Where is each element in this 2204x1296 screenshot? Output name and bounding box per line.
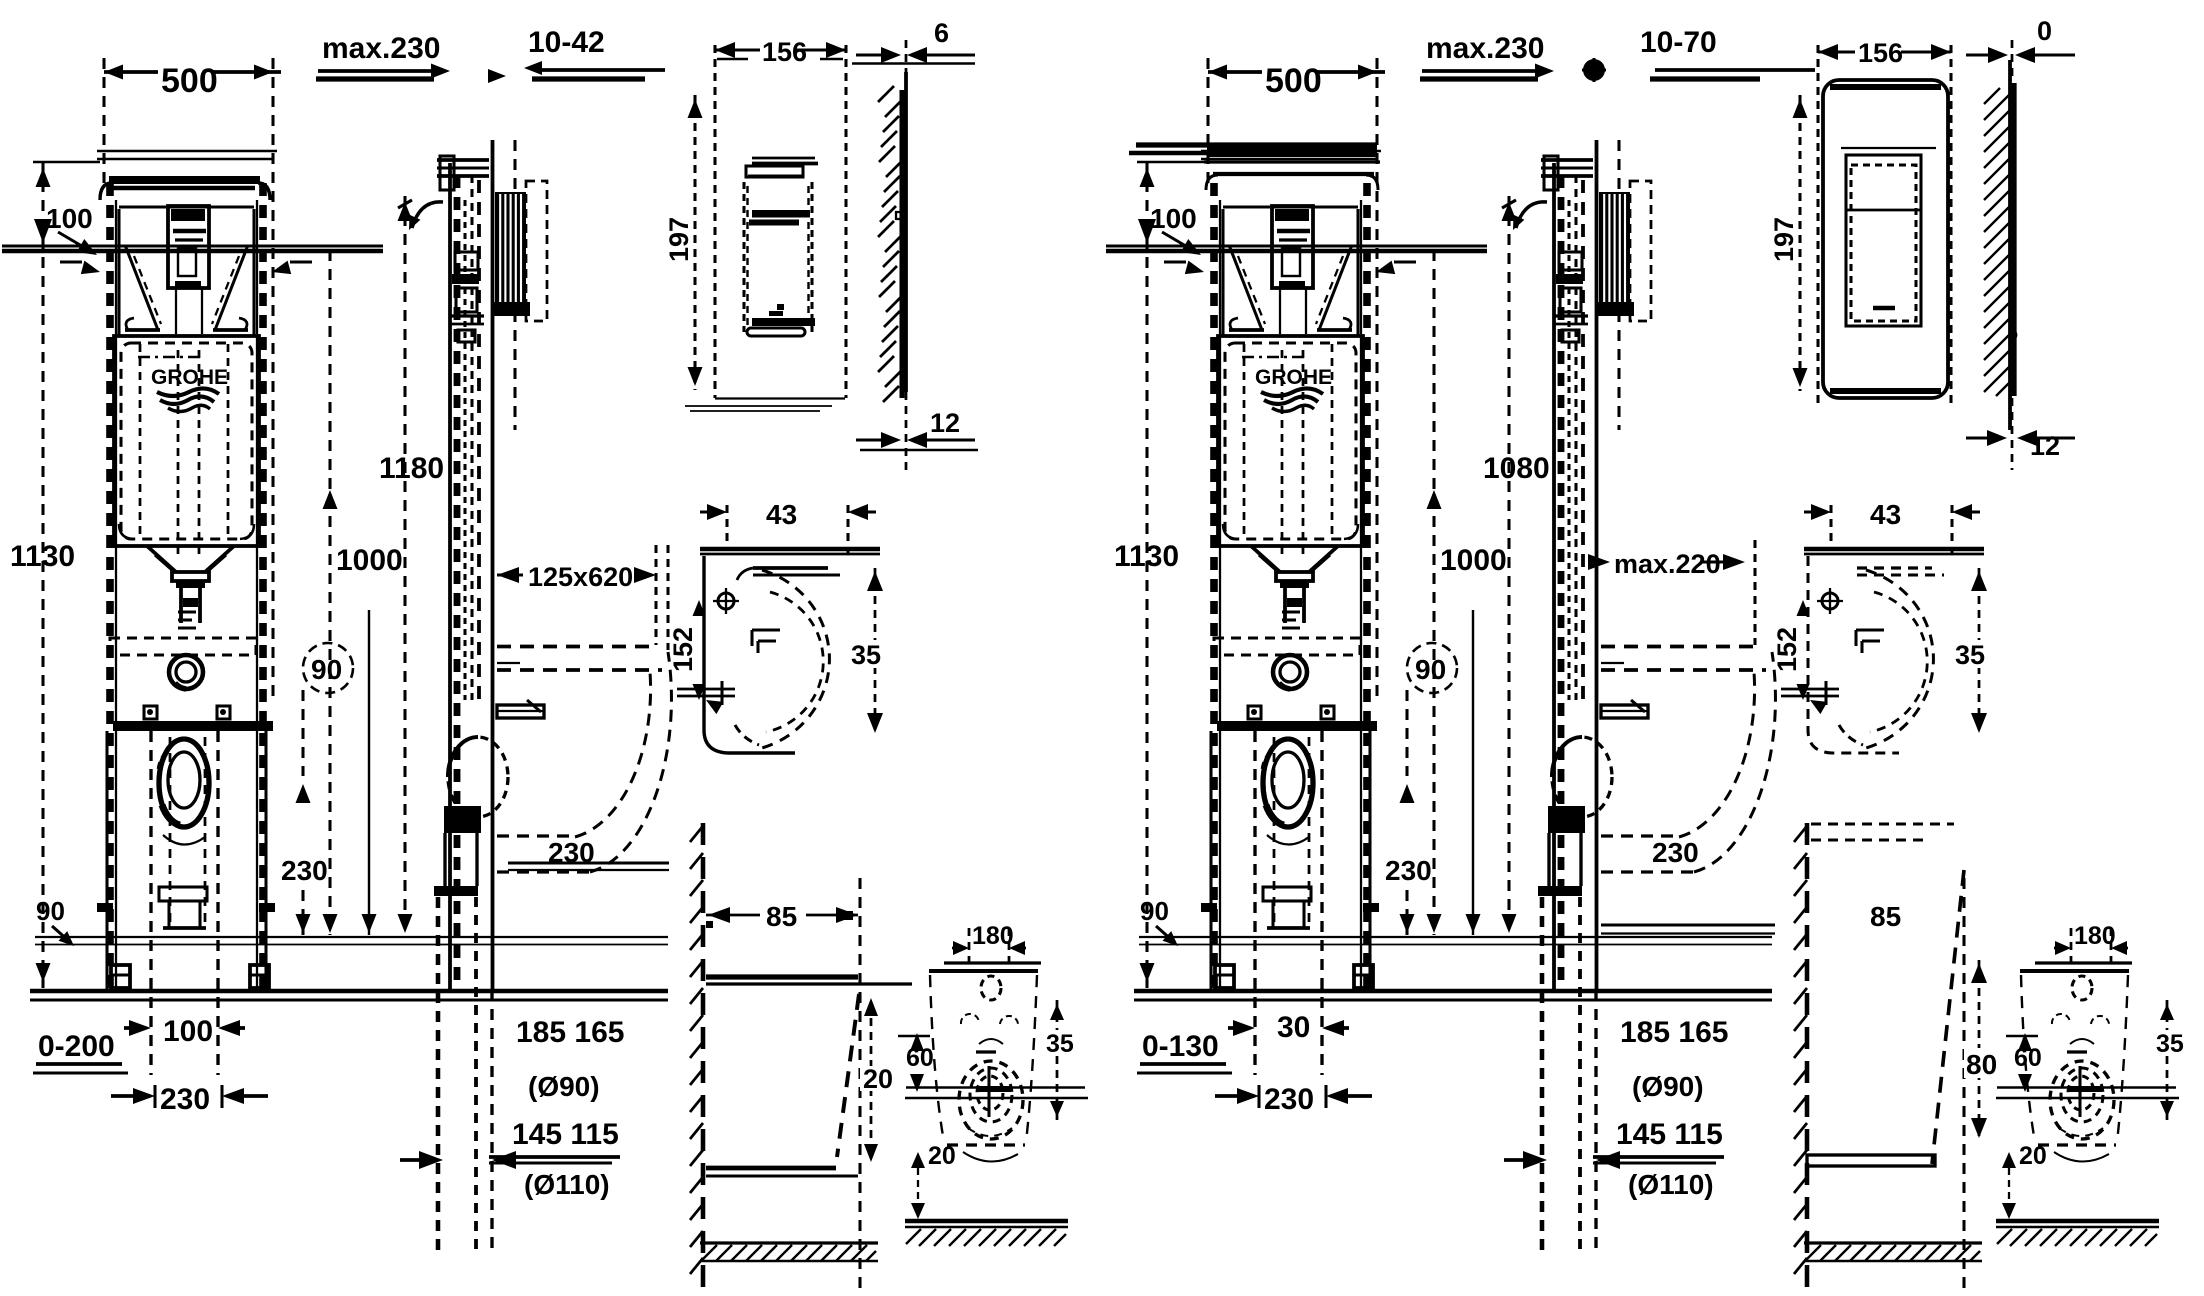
svg-text:0-200: 0-200 — [38, 1030, 115, 1063]
horizontal outlet pipe dashed L — [497, 647, 671, 873]
svg-text:35: 35 — [1046, 1030, 1074, 1058]
svg-text:197: 197 — [664, 217, 694, 262]
bowl front dim 20 L — [911, 1142, 956, 1219]
side view extent line 1000 L — [323, 250, 338, 935]
svg-text:6: 6 — [934, 18, 949, 48]
dim 35 right R — [1952, 568, 1987, 735]
dim 100 bottom L — [124, 1015, 245, 1048]
frame top plate L — [97, 151, 277, 200]
svg-text:145 115: 145 115 — [512, 1118, 619, 1151]
flush connection marks L — [752, 630, 780, 653]
frame side rails L — [110, 183, 263, 990]
svg-text:1000: 1000 — [1440, 544, 1507, 577]
dim 85 bowl side L — [706, 901, 858, 932]
GROHE logo R — [1255, 366, 1332, 412]
dim 152 rotated L — [668, 600, 706, 700]
flush connection marks R — [1856, 630, 1884, 653]
svg-text:90: 90 — [36, 896, 65, 926]
svg-text:180: 180 — [2074, 922, 2116, 950]
svg-text:180: 180 — [972, 922, 1014, 950]
dim 85 bowl side R — [1870, 901, 1901, 932]
flush plate dim 197 L — [664, 95, 703, 390]
dim 20 bowl side L — [860, 998, 894, 1162]
svg-text:30: 30 — [1277, 1011, 1310, 1044]
label 230 at pipe R — [1652, 837, 1699, 868]
outlet bend side view R — [1548, 737, 1612, 833]
svg-text:500: 500 — [1265, 62, 1322, 100]
svg-text:156: 156 — [762, 37, 807, 67]
extension dashed line L — [858, 878, 861, 1290]
label 1000 L — [336, 544, 403, 577]
bowl seat dashed ellipses R — [1839, 570, 1933, 748]
wall section hatch plate R — [1984, 40, 2016, 470]
svg-text:(Ø110): (Ø110) — [524, 1169, 610, 1200]
dim 35 right L — [848, 568, 883, 735]
svg-text:85: 85 — [766, 901, 797, 932]
svg-text:1130: 1130 — [1114, 540, 1179, 573]
left installation set — [0, 0, 1, 1]
side view supply valve L — [450, 252, 484, 342]
overall height dim 1130 R — [1114, 162, 1204, 988]
support bracket bar L — [113, 721, 273, 731]
svg-text:(Ø90): (Ø90) — [1632, 1071, 1704, 1102]
bowl front dim 60 L — [898, 1033, 934, 1092]
flush plate dashed extents L — [685, 45, 846, 411]
svg-text:20: 20 — [863, 1064, 893, 1094]
label 90 circled R — [1407, 643, 1457, 693]
frame feet L — [97, 731, 275, 990]
supply stub R — [1781, 681, 1839, 714]
bowl front details L — [905, 976, 1088, 1162]
bowl top view outline L — [704, 556, 840, 753]
bowl top view wall line R — [1804, 549, 1984, 554]
wall mounting plate hatched L — [492, 181, 547, 321]
floor bowl front L — [905, 1221, 1068, 1246]
frame legs dashed L — [151, 731, 218, 1075]
svg-text:0-130: 0-130 — [1142, 1030, 1219, 1063]
label 90 circled L — [303, 643, 353, 693]
label max.230 R — [1420, 32, 1554, 79]
svg-text:100: 100 — [1150, 203, 1197, 234]
frame top plate R — [1129, 144, 1381, 190]
svg-text:145 115: 145 115 — [1616, 1118, 1723, 1151]
cistern tank L — [114, 336, 259, 546]
svg-text:100: 100 — [46, 203, 93, 234]
frame legs dashed R — [1255, 731, 1322, 1075]
svg-text:197: 197 — [1769, 217, 1799, 262]
wall line bowl side L — [690, 823, 703, 1296]
svg-text:10-70: 10-70 — [1640, 26, 1717, 59]
pipe lines right of wall L — [508, 863, 669, 870]
side view supply valve R — [1554, 252, 1588, 342]
svg-text:35: 35 — [2156, 1030, 2184, 1058]
label 90 at foot R — [1140, 896, 1178, 946]
svg-text:20: 20 — [2019, 1142, 2047, 1170]
dim 500 R — [1208, 62, 1385, 100]
bowl front details R — [1996, 976, 2179, 1162]
svg-text:125x620: 125x620 — [528, 562, 633, 592]
GROHE logo L — [151, 366, 228, 412]
outlet height dim 230 R — [1385, 690, 1432, 935]
label 1180 L — [379, 452, 444, 485]
svg-text:90: 90 — [1140, 896, 1169, 926]
side view foot R — [1538, 833, 1596, 1255]
label 1000 R — [1440, 544, 1507, 577]
svg-text:60: 60 — [906, 1044, 934, 1072]
water inlet circle L — [169, 655, 203, 689]
label 230 at pipe L — [548, 837, 595, 868]
svg-text:100: 100 — [163, 1015, 213, 1048]
svg-text:GROHE: GROHE — [1255, 366, 1332, 389]
svg-text:230: 230 — [1652, 837, 1699, 868]
right installation set — [0, 0, 1, 1]
rotation arrow L — [398, 200, 443, 230]
bowl front outline R — [2020, 963, 2132, 1145]
plate depth dim 12 L — [856, 408, 978, 450]
label max.220 R — [1588, 540, 1755, 645]
svg-text:85: 85 — [1870, 901, 1901, 932]
dim 30 bottom R — [1228, 1011, 1349, 1044]
bowl front dim 180 L — [952, 922, 1026, 962]
side view top bracket L — [437, 156, 489, 190]
svg-text:230: 230 — [281, 855, 328, 886]
label 10-70 R — [1582, 26, 1815, 82]
svg-text:500: 500 — [161, 62, 218, 100]
label 0-130 R — [1137, 1030, 1232, 1073]
flush plate front view R — [1823, 80, 1948, 398]
svg-text:60: 60 — [2014, 1044, 2042, 1072]
frame feet R — [1201, 731, 1379, 990]
finished floor line L — [35, 937, 668, 945]
filling valve mechanism R — [1223, 206, 1358, 335]
fixing bolts L — [144, 706, 230, 719]
filling valve mechanism L — [119, 206, 254, 335]
flush plate dashed extents R — [1818, 45, 1951, 405]
bowl front dim 180 R — [2054, 922, 2128, 962]
bowl front dim 35 R — [2152, 1000, 2184, 1120]
plate depth dim 6 L — [852, 18, 975, 64]
floor hatch bowl side R — [1804, 1243, 1982, 1261]
floor bowl front R — [1996, 1221, 2159, 1246]
horizontal outlet pipe dashed R — [1601, 647, 1775, 873]
bowl top view wall line L — [700, 549, 880, 554]
svg-text:90: 90 — [1415, 654, 1446, 685]
svg-text:90: 90 — [311, 654, 342, 685]
side frame rails R — [1554, 163, 1583, 990]
cistern tank R — [1218, 336, 1363, 546]
svg-text:12: 12 — [2030, 431, 2060, 461]
mounting bracket dashed R — [1214, 638, 1360, 655]
pipe lines right of wall R — [1601, 925, 1775, 934]
plate depth dim 12 R — [1966, 430, 2075, 461]
side view extent line mid L — [362, 610, 377, 935]
plate depth dim 0 R — [1966, 16, 2075, 63]
overall height dim 1130 L — [10, 162, 100, 988]
tank internal dashed lines R — [1244, 344, 1332, 560]
bowl top view outline R — [1808, 556, 1944, 753]
dim 80 bowl side R — [1964, 960, 2002, 1140]
side view extent line 1180 L — [398, 196, 413, 933]
wall mounting plate hatched R — [1596, 181, 1651, 321]
side frame rails L — [450, 163, 479, 990]
dim 500 extension lines L — [104, 58, 273, 700]
svg-text:185 165: 185 165 — [516, 1016, 624, 1049]
svg-text:35: 35 — [1955, 640, 1985, 670]
svg-text:43: 43 — [1870, 499, 1901, 530]
svg-text:max.230: max.230 — [322, 32, 440, 65]
bowl front dim 35 L — [1042, 1000, 1074, 1120]
bowl front outline L — [929, 963, 1041, 1145]
svg-text:20: 20 — [928, 1142, 956, 1170]
side view top bracket R — [1541, 156, 1593, 190]
svg-text:43: 43 — [766, 499, 797, 530]
svg-text:max.220: max.220 — [1614, 549, 1721, 579]
rotation arrow R — [1502, 200, 1547, 230]
svg-text:0: 0 — [2037, 16, 2052, 46]
tank internal dashed lines L — [140, 344, 228, 560]
svg-text:10-42: 10-42 — [528, 26, 605, 59]
supply connection arrows L — [60, 261, 312, 275]
frame side rails R — [1214, 183, 1367, 990]
wall section hatch plate L — [878, 40, 906, 470]
WC outlet socket R — [1262, 737, 1313, 928]
finished floor line R — [1139, 937, 1772, 945]
svg-text:230: 230 — [160, 1083, 210, 1116]
side view extent line 1000 R — [1427, 250, 1442, 935]
svg-text:152: 152 — [668, 627, 698, 672]
supply connection arrows R — [1164, 261, 1416, 275]
seat slab side R — [1807, 824, 1964, 1166]
svg-text:185 165: 185 165 — [1620, 1016, 1728, 1049]
bowl front dim 20 R — [2002, 1142, 2047, 1219]
dim 152 rotated R — [1772, 600, 1810, 700]
dim 230 bottom L — [111, 1083, 268, 1116]
side view extent line 1180 R — [1502, 196, 1517, 933]
label 100 top L — [46, 203, 97, 255]
side view foot L — [434, 833, 492, 1255]
supply stub L — [677, 681, 735, 714]
bowl profile side L — [706, 977, 912, 1176]
mounting bracket dashed L — [110, 638, 256, 655]
svg-text:(Ø110): (Ø110) — [1628, 1169, 1714, 1200]
flush plate dim 197 R — [1769, 95, 1808, 391]
dim 500 L — [104, 62, 281, 100]
label 0-200 L — [33, 1030, 128, 1073]
label max.230 L — [316, 32, 450, 79]
label 1080 R — [1483, 452, 1550, 485]
outlet connector below L — [159, 887, 207, 928]
outlet bend side view L — [444, 737, 508, 833]
drain diameter labels L — [400, 1016, 624, 1200]
svg-text:1080: 1080 — [1483, 452, 1550, 485]
outlet connector below R — [1263, 887, 1311, 928]
bowl seat dashed ellipses L — [735, 570, 829, 748]
label 10-42 L — [488, 26, 665, 83]
drain diameter labels R — [1504, 1016, 1728, 1200]
svg-text:(Ø90): (Ø90) — [528, 1071, 600, 1102]
svg-text:80: 80 — [1966, 1049, 1997, 1080]
svg-text:1130: 1130 — [10, 540, 75, 573]
svg-text:1180: 1180 — [379, 452, 444, 485]
flush plate front view L — [744, 158, 818, 336]
fixing hole R — [1817, 588, 1843, 614]
label 125x620 L — [497, 545, 668, 650]
bowl front dim 60 R — [2006, 1033, 2042, 1092]
WC outlet socket L — [158, 737, 209, 928]
wall line side view L — [493, 140, 516, 990]
svg-text:12: 12 — [930, 408, 960, 438]
svg-text:152: 152 — [1772, 627, 1802, 672]
outlet height dim 230 L — [281, 690, 328, 935]
svg-text:GROHE: GROHE — [151, 366, 228, 389]
svg-text:156: 156 — [1858, 38, 1903, 68]
water supply line R — [1106, 219, 1487, 251]
extension dashed line R — [1962, 878, 1965, 1290]
wall line bowl side R — [1794, 823, 1807, 1296]
flush plate dim 156 R — [1818, 38, 1951, 68]
label 100 top R — [1150, 203, 1201, 255]
flush plate dim 156 L — [715, 37, 846, 67]
floor lines L — [30, 991, 668, 1000]
bowl top view dim 43 R — [1804, 499, 1980, 560]
fixing bolts R — [1248, 706, 1334, 719]
svg-text:max.230: max.230 — [1426, 32, 1544, 65]
bowl top view dim 43 L — [700, 499, 876, 560]
svg-text:230: 230 — [548, 837, 595, 868]
floor lines R — [1134, 991, 1772, 1000]
dim 230 bottom R — [1215, 1083, 1372, 1116]
svg-text:1000: 1000 — [336, 544, 403, 577]
svg-text:230: 230 — [1264, 1083, 1314, 1116]
support bracket bar R — [1217, 721, 1377, 731]
dim 500 extension lines R — [1208, 58, 1377, 700]
wall line side view R — [1597, 140, 1620, 990]
water inlet circle R — [1273, 655, 1307, 689]
label 90 at foot L — [36, 896, 74, 946]
svg-text:230: 230 — [1385, 855, 1432, 886]
tank funnel and flush pipe L — [147, 546, 234, 628]
side view extent line mid R — [1466, 610, 1481, 935]
fixing hole L — [713, 588, 739, 614]
tank funnel and flush pipe R — [1251, 546, 1338, 628]
floor hatch bowl side L — [700, 1243, 878, 1261]
svg-text:35: 35 — [851, 640, 881, 670]
water supply line L — [2, 219, 383, 251]
